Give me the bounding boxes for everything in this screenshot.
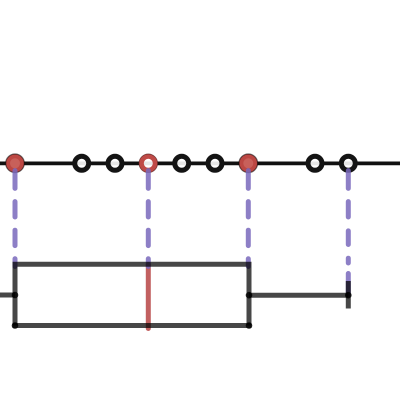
open black data point (maximum) at x=348.3 xyxy=(341,156,355,170)
open black data point at x=181.7 xyxy=(175,156,189,170)
filled red Q3 point at x=248.3 xyxy=(239,154,258,173)
joint dot at whisker cap junction xyxy=(345,292,352,299)
joint dot at box bottom-right corner xyxy=(246,322,253,329)
filled red Q1 point at x=15 xyxy=(6,154,25,173)
left whisker xyxy=(0,293,15,298)
joint dot at right whisker / box junction xyxy=(246,292,253,299)
open black data point at x=115 xyxy=(108,156,122,170)
right whisker end cap xyxy=(346,281,351,309)
open black data point at x=215 xyxy=(208,156,222,170)
joint dot at box bottom-left corner xyxy=(12,322,19,329)
right whisker xyxy=(249,293,348,298)
dashed purple drop line Q3 xyxy=(246,171,251,267)
dashed purple drop line median xyxy=(146,171,151,267)
open black data point at x=315 xyxy=(308,156,322,170)
joint dot at left whisker / box junction xyxy=(12,292,19,299)
box bottom edge xyxy=(13,323,252,328)
open black data point at x=81.7 xyxy=(75,156,89,170)
red median line inside box xyxy=(146,265,151,329)
dashed purple drop line Q1 xyxy=(13,171,18,267)
number line xyxy=(0,162,400,166)
box left, top, right edges (single path) xyxy=(15,264,249,325)
dashed purple drop line maximum xyxy=(346,171,351,295)
open red median point at x=148.3 xyxy=(139,154,158,173)
